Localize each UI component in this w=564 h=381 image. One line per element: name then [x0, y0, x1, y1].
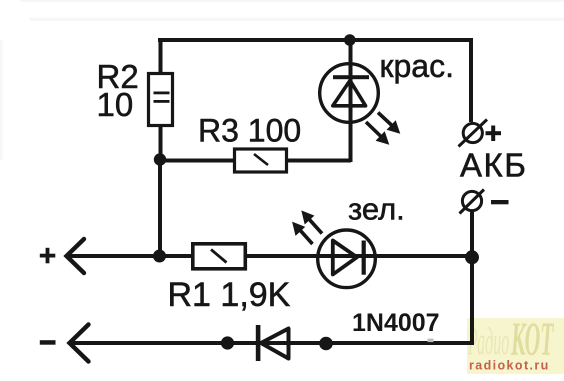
diode VD1 triangle [261, 329, 289, 359]
svg-text:АКБ: АКБ [460, 147, 527, 184]
watermark RadioKOT box [467, 313, 564, 374]
resistor R2 [149, 74, 173, 126]
LED green emission arrows [293, 211, 322, 244]
node E junction dot [319, 337, 333, 351]
terminal AKB minus [460, 190, 509, 214]
svg-text:зел.: зел. [348, 192, 405, 227]
svg-text:1N4007: 1N4007 [352, 309, 440, 337]
wire: top rail right corner down to battery + [469, 38, 473, 122]
wire: top horizontal rail [158, 38, 473, 42]
wire: middle row horizontal [67, 254, 473, 258]
label - input [40, 340, 56, 345]
LED VD red circle [320, 64, 379, 123]
LED VD green circle [318, 230, 376, 288]
svg-text:крас.: крас. [380, 48, 454, 84]
resistor R1 [193, 244, 246, 269]
node C junction dot [465, 250, 479, 264]
wire: red LED branch vertical [349, 40, 353, 162]
scan artifact near label [428, 339, 434, 343]
LED green triangle [333, 241, 357, 275]
resistor R3 [235, 149, 287, 172]
LED green cathode bar [362, 241, 366, 275]
wire: battery minus vertical [470, 211, 474, 346]
node B junction dot [153, 250, 166, 263]
diode VD1 cathode bar [256, 325, 261, 361]
input + arrow [67, 239, 85, 273]
terminal AKB plus [459, 120, 502, 147]
LED red triangle [333, 81, 366, 106]
node A junction dot [154, 153, 166, 165]
node D junction dot [221, 336, 234, 349]
wire: node A to R3 row [160, 159, 351, 163]
input - arrow [70, 325, 89, 362]
svg-text:КОТ: КОТ [510, 313, 554, 366]
node on top rail dot [344, 34, 356, 46]
svg-text:10: 10 [97, 86, 134, 123]
svg-text:R3 100: R3 100 [198, 113, 301, 149]
wire: bottom rail [70, 341, 473, 345]
label + input [40, 248, 56, 263]
LED red emission arrows [366, 113, 400, 145]
wire: node A down to node B [158, 160, 162, 257]
scan noise band top [0, 0, 564, 160]
svg-text:radiokot.ru: radiokot.ru [469, 359, 550, 373]
wire: R2 top lead [159, 38, 163, 75]
svg-text:R1 1,9K: R1 1,9K [168, 276, 291, 314]
LED red cathode bar [333, 75, 369, 79]
wire: R2 bottom lead [159, 125, 163, 161]
